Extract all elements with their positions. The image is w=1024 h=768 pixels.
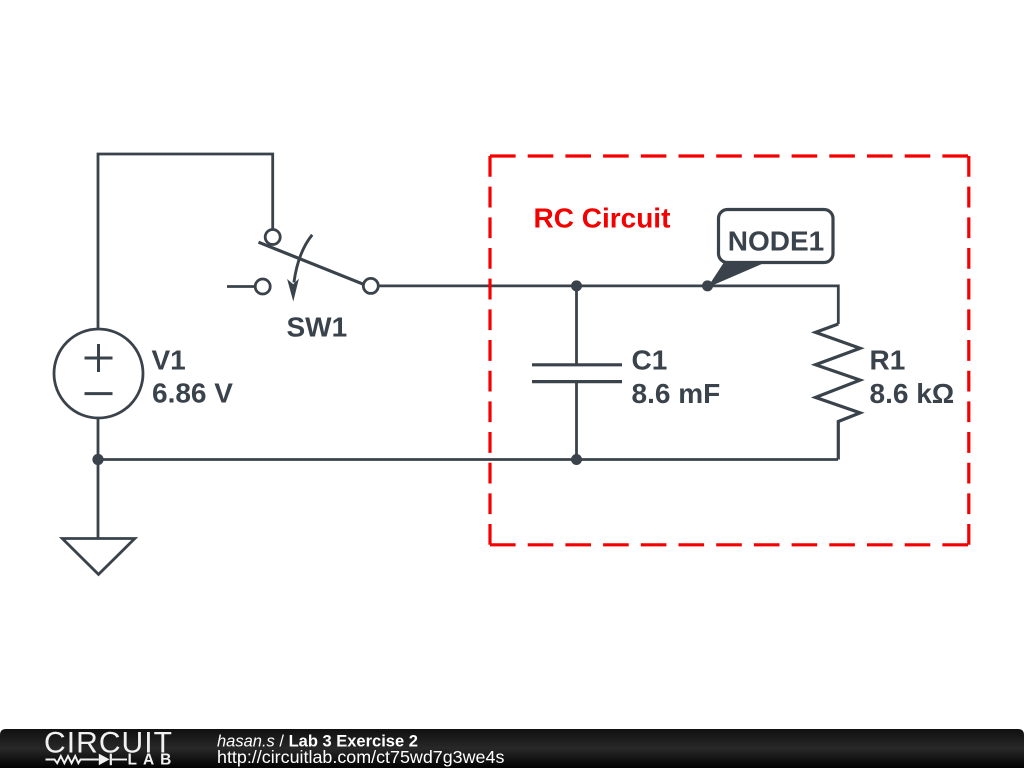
red dashed enclosure box <box>490 156 969 545</box>
wire: switch to resistor top rail <box>378 286 838 324</box>
footer bar <box>0 729 1024 768</box>
NODE1 callout box <box>719 210 834 263</box>
svg-text:R1: R1 <box>870 345 906 376</box>
svg-text:RC Circuit: RC Circuit <box>534 203 671 234</box>
junction: V1 bottom node <box>92 454 103 465</box>
junction: top rail at C1 <box>571 280 582 291</box>
wire: V1 bottom lead to bottom rail <box>97 418 100 460</box>
switch actuation arrow <box>294 235 312 283</box>
C1 plates <box>532 365 622 382</box>
svg-text:LAB: LAB <box>128 752 178 768</box>
switch SW1 <box>227 230 378 302</box>
wire: bottom rail <box>98 458 838 461</box>
ground <box>62 539 135 575</box>
svg-text:8.6 kΩ: 8.6 kΩ <box>870 378 955 409</box>
svg-text:V1: V1 <box>152 345 186 376</box>
voltage source V1 <box>54 329 143 418</box>
wire: V1 top lead up and across to switch top terminal <box>98 154 273 334</box>
capacitor C1 <box>532 286 622 460</box>
wire: ground lead <box>97 460 100 539</box>
wire: stub to unused left terminal <box>227 285 256 288</box>
switch terminal: right <box>363 278 378 293</box>
NODE1 callout tail <box>708 262 768 288</box>
resistor R1 <box>816 324 861 460</box>
svg-text:NODE1: NODE1 <box>728 226 824 257</box>
wire: C1 bottom lead <box>575 382 578 460</box>
svg-text:C1: C1 <box>632 345 668 376</box>
wire: C1 top lead <box>575 286 578 365</box>
svg-text:6.86 V: 6.86 V <box>152 378 233 409</box>
svg-text:http://circuitlab.com/ct75wd7g: http://circuitlab.com/ct75wd7g3we4s <box>217 747 504 767</box>
switch terminal: top <box>265 230 280 245</box>
switch blade <box>259 242 365 285</box>
logo resistor-diode squiggle <box>46 756 99 763</box>
svg-text:SW1: SW1 <box>287 312 348 343</box>
node NODE1 dot <box>702 280 713 291</box>
junction: bottom rail at C1 <box>571 454 582 465</box>
svg-text:8.6 mF: 8.6 mF <box>632 378 721 409</box>
switch terminal: left <box>255 279 270 294</box>
